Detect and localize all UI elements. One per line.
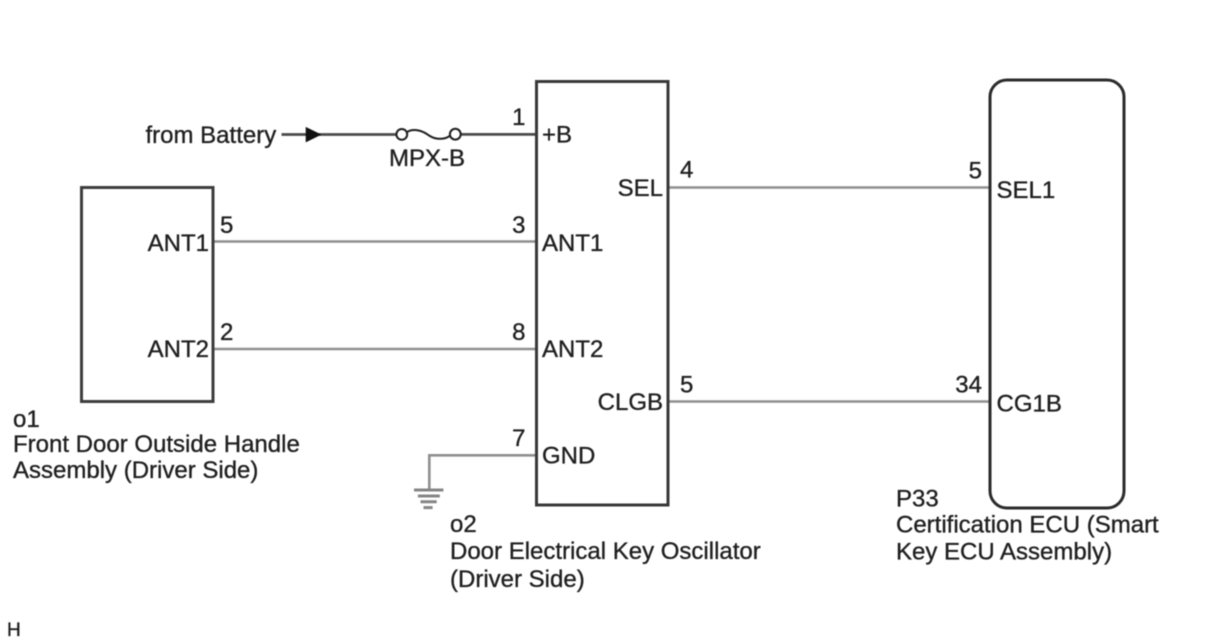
wire GND net (o2 pin7 to ground): [429, 455, 537, 489]
svg-text:Certification ECU (Smart: Certification ECU (Smart: [896, 512, 1159, 539]
wire battery feed (o2 side): [460, 133, 537, 136]
svg-text:CLGB: CLGB: [598, 389, 663, 416]
svg-text:5: 5: [220, 212, 233, 239]
svg-text:5: 5: [969, 158, 982, 185]
label P33 caption: [896, 486, 1159, 566]
label o2 caption: [450, 511, 761, 593]
svg-text:ANT1: ANT1: [148, 230, 209, 257]
svg-text:5: 5: [680, 372, 693, 399]
svg-text:3: 3: [512, 212, 525, 239]
svg-text:P33: P33: [896, 486, 939, 513]
wire SEL net (o2 pin4 to P33 pin5): [668, 186, 992, 189]
svg-text:ANT2: ANT2: [148, 336, 209, 363]
svg-text:SEL: SEL: [618, 175, 663, 202]
wire battery feed (battery side): [282, 133, 398, 136]
connector o1 Front Door Outside Handle Assembly: [82, 188, 214, 402]
svg-text:Front Door Outside Handle: Front Door Outside Handle: [13, 431, 300, 458]
label o1 caption: [13, 406, 300, 484]
svg-text:H: H: [7, 620, 21, 641]
svg-text:7: 7: [512, 425, 525, 452]
svg-text:o2: o2: [450, 511, 477, 538]
svg-text:from Battery: from Battery: [146, 122, 277, 149]
fuse MPX-B: [396, 129, 460, 140]
svg-text:Door Electrical Key Oscillator: Door Electrical Key Oscillator: [450, 538, 761, 565]
svg-text:ANT1: ANT1: [542, 230, 603, 257]
svg-text:GND: GND: [542, 443, 595, 470]
svg-text:2: 2: [220, 319, 233, 346]
wire ANT2 net (o1 pin2 to o2 pin8): [213, 348, 537, 351]
connector o2 Door Electrical Key Oscillator: [537, 82, 669, 506]
svg-text:Assembly (Driver Side): Assembly (Driver Side): [13, 457, 258, 484]
wire CLGB net (o2 pin5 to P33 pin34): [668, 400, 992, 403]
connector P33 Certification ECU (Smart Key ECU Assembly): [990, 80, 1124, 508]
svg-text:ANT2: ANT2: [542, 336, 603, 363]
svg-text:SEL1: SEL1: [997, 177, 1056, 204]
svg-text:MPX-B: MPX-B: [389, 145, 465, 172]
ground: [414, 490, 443, 508]
svg-text:(Driver Side): (Driver Side): [450, 566, 585, 593]
svg-text:34: 34: [955, 372, 982, 399]
svg-text:Key ECU Assembly): Key ECU Assembly): [896, 539, 1112, 566]
svg-text:CG1B: CG1B: [997, 391, 1062, 418]
arrow from battery: [306, 128, 320, 142]
svg-text:1: 1: [512, 104, 525, 131]
wire ANT1 net (o1 pin5 to o2 pin3): [213, 240, 537, 243]
svg-text:4: 4: [680, 157, 693, 184]
svg-text:+B: +B: [542, 122, 572, 149]
svg-text:o1: o1: [13, 406, 40, 433]
svg-text:8: 8: [512, 319, 525, 346]
